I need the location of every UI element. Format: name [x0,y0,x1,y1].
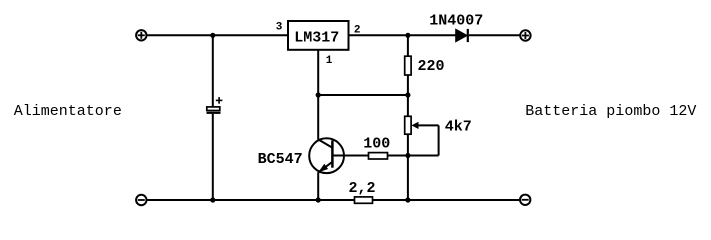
svg-text:4k7: 4k7 [445,118,472,135]
capacitor C1 electrolytic [207,97,223,113]
wire diode to output terminal [469,34,520,36]
wire 220 top [407,35,409,56]
svg-text:Alimentatore: Alimentatore [14,103,122,120]
IC U1 LM317 regulator box [288,21,349,50]
wire top rail left [147,34,288,36]
node adj left junction [316,92,321,97]
terminal + input top-left [136,30,146,40]
wire capacitor bottom [212,114,214,200]
node emitter bottom junction [316,197,321,202]
svg-text:BC547: BC547 [258,151,303,168]
wire collector down [317,95,319,140]
node base junction [405,153,410,158]
wire emitter down [317,172,319,200]
wire pin 1 down [317,50,319,95]
terminal - output bottom-right [520,195,530,205]
terminal + output top-right [520,30,530,40]
potentiometer P1 4k7 [405,116,439,155]
svg-text:100: 100 [363,136,390,153]
node resistor 220 top junction [405,33,410,38]
node capacitor bottom junction [210,197,215,202]
svg-text:LM317: LM317 [294,29,339,46]
resistor R3 2,2 [355,197,373,203]
wire node to bottom rail [407,156,409,201]
svg-text:2,2: 2,2 [349,180,376,197]
svg-text:1N4007: 1N4007 [429,12,483,29]
resistor R2 100 [369,153,388,159]
resistor R1 220 [405,56,411,75]
svg-text:Batteria piombo 12V: Batteria piombo 12V [525,103,696,120]
transistor Q1 BC547 [309,138,344,173]
wire bottom rail [147,199,519,201]
svg-text:220: 220 [418,58,445,75]
diode D1 1N4007 [456,29,468,42]
node adj right junction [405,92,410,97]
wire pot top [407,95,409,116]
wire pin 2 to diode [349,34,456,36]
node resistor chain bottom junction [405,197,410,202]
terminal - input bottom-left [136,195,146,205]
svg-text:1: 1 [326,55,333,67]
wire base to resistor 100 [332,155,368,157]
wire middle rail [318,94,408,96]
svg-text:3: 3 [276,21,283,33]
wire capacitor top [212,35,214,107]
node capacitor top junction [210,33,215,38]
wire 220 bottom [407,75,409,95]
wire pot bottom [407,134,409,155]
wire resistor 100 to node [388,155,408,157]
